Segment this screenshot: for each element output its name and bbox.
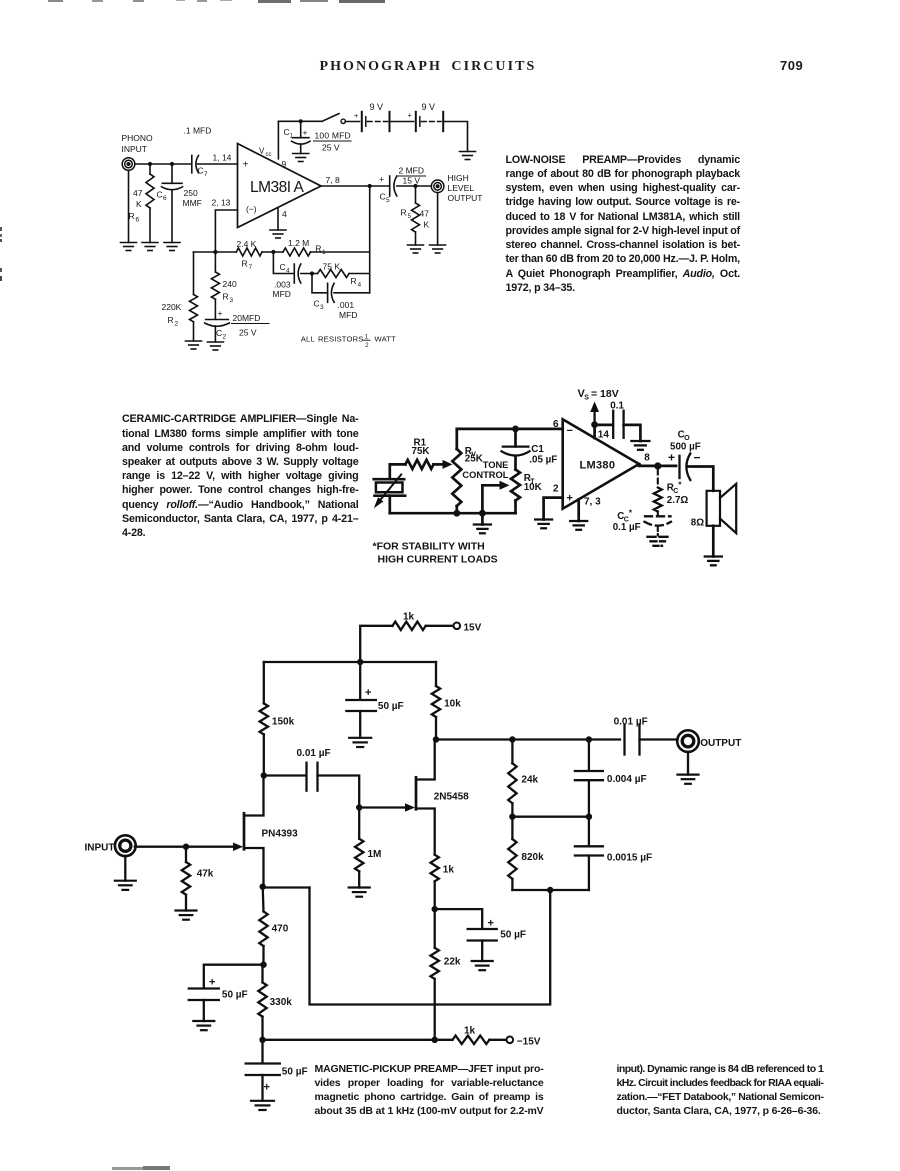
svg-text:0.01 µF: 0.01 µF bbox=[614, 717, 648, 728]
switch bbox=[322, 114, 339, 122]
JFET Q1 PN4393 bbox=[243, 813, 246, 849]
resistor R4 75K bbox=[318, 270, 350, 278]
svg-text:15V: 15V bbox=[464, 623, 482, 634]
resistor 1k (15V feed) bbox=[393, 622, 426, 630]
svg-text:WATT: WATT bbox=[375, 335, 397, 344]
svg-text:50 µF: 50 µF bbox=[222, 990, 248, 1001]
node output bbox=[654, 462, 661, 469]
svg-text:15 V: 15 V bbox=[403, 176, 421, 186]
svg-text:50 µF: 50 µF bbox=[378, 701, 404, 712]
svg-text:K: K bbox=[136, 199, 142, 209]
svg-text:2N5458: 2N5458 bbox=[434, 792, 469, 803]
svg-text:PN4393: PN4393 bbox=[262, 829, 299, 840]
svg-text:.003: .003 bbox=[274, 280, 291, 290]
node bottom rail left bbox=[259, 1037, 265, 1043]
capacitor 0.0015uF bbox=[588, 817, 590, 846]
svg-text:+: + bbox=[365, 687, 371, 699]
node wiper/ground bbox=[479, 510, 486, 517]
page number 709 bbox=[780, 58, 803, 73]
svg-text:R: R bbox=[351, 276, 357, 286]
svg-text:cc: cc bbox=[266, 152, 272, 158]
svg-text:R: R bbox=[129, 211, 135, 221]
svg-text:3: 3 bbox=[230, 297, 234, 304]
svg-text:V: V bbox=[259, 147, 265, 156]
speaker 8 ohm bbox=[707, 491, 720, 526]
RT wiper arrow wire bbox=[482, 485, 501, 513]
15V supply: wire bbox=[360, 626, 392, 662]
svg-text:47: 47 bbox=[420, 209, 430, 219]
svg-text:6: 6 bbox=[136, 217, 140, 224]
node R3 branch bbox=[213, 250, 217, 254]
svg-text:INPUT: INPUT bbox=[85, 843, 115, 854]
svg-text:1.2 M: 1.2 M bbox=[288, 238, 309, 248]
svg-text:1, 14: 1, 14 bbox=[213, 153, 232, 163]
scan artifact marks (left edge) bbox=[0, 227, 2, 231]
resistor R2 220K bbox=[193, 252, 195, 295]
svg-text:+: + bbox=[408, 111, 413, 120]
svg-text:2 MFD: 2 MFD bbox=[399, 166, 425, 176]
input wire with gate arrow bbox=[135, 846, 234, 848]
resistor 330k bbox=[258, 982, 266, 1016]
battery B1 9V bbox=[345, 121, 359, 123]
svg-text:2: 2 bbox=[175, 321, 179, 328]
ground (R2) bbox=[186, 340, 202, 342]
potentiometer RV 25K volume bbox=[455, 429, 458, 449]
svg-text:+: + bbox=[668, 451, 675, 465]
svg-text:820k: 820k bbox=[521, 852, 544, 863]
resistor R5 47K bbox=[415, 186, 417, 203]
svg-text:9 V: 9 V bbox=[422, 102, 436, 112]
node input/R6 bbox=[148, 162, 152, 166]
svg-text:4: 4 bbox=[286, 268, 290, 275]
gate wire 2N5458 bbox=[359, 806, 406, 808]
svg-text:*: * bbox=[678, 480, 682, 490]
wire source to feedback bbox=[263, 886, 310, 888]
svg-text:5: 5 bbox=[408, 213, 412, 220]
ground (speaker) bbox=[712, 526, 715, 557]
svg-text:−: − bbox=[567, 425, 573, 437]
svg-text:75K: 75K bbox=[412, 446, 430, 457]
svg-text:C: C bbox=[280, 262, 286, 272]
svg-text:4: 4 bbox=[282, 209, 287, 219]
node C3 branch bbox=[310, 271, 314, 275]
node RV bottom bbox=[453, 510, 460, 517]
ground (battery) bbox=[460, 151, 476, 153]
svg-text:INPUT: INPUT bbox=[122, 144, 148, 154]
node source 2N5458 bbox=[432, 906, 438, 912]
capacitor 50uF (supply) bbox=[359, 662, 361, 700]
svg-text:2: 2 bbox=[223, 334, 227, 341]
wire C7 to op-amp + input, pins 1,14 bbox=[198, 163, 238, 165]
text block p2 bbox=[122, 412, 359, 540]
wire (-) input pins 2,13 bbox=[215, 210, 237, 252]
svg-text:75 K: 75 K bbox=[323, 262, 341, 272]
wire R1 to feedback line bbox=[311, 251, 370, 253]
op-amp U1 LM381A triangle bbox=[238, 144, 322, 228]
svg-text:−: − bbox=[694, 451, 701, 465]
wire cartridge bottom bbox=[388, 496, 391, 514]
wire C4 to R4 bbox=[301, 273, 318, 275]
svg-text:C: C bbox=[216, 328, 222, 338]
text block p3b bbox=[617, 1062, 824, 1118]
svg-text:MMF: MMF bbox=[183, 198, 202, 208]
node R5 bbox=[413, 184, 417, 188]
svg-text:HIGH: HIGH bbox=[448, 173, 469, 183]
ground (CC*, dashed) bbox=[648, 536, 669, 538]
resistor 1k (2N5458 source) bbox=[431, 855, 439, 882]
capacitor C6 250 MMF bbox=[171, 164, 173, 183]
capacitor 0.1 bypass bbox=[595, 424, 613, 427]
svg-text:.1 MFD: .1 MFD bbox=[184, 126, 212, 136]
capacitor 0.01uF (interstage) bbox=[264, 774, 306, 776]
capacitor C5 2MFD 15V bbox=[389, 176, 391, 196]
svg-text:250: 250 bbox=[184, 188, 198, 198]
feedback loop wire bbox=[310, 888, 551, 1005]
svg-text:PHONO: PHONO bbox=[122, 133, 154, 143]
svg-text:MFD: MFD bbox=[339, 310, 357, 320]
svg-text:RESISTORS: RESISTORS bbox=[318, 335, 364, 344]
node 47k bbox=[183, 844, 189, 850]
page header: PHONOGRAPH CIRCUITS bbox=[320, 59, 537, 75]
svg-text:OUTPUT: OUTPUT bbox=[700, 738, 741, 749]
svg-text:6: 6 bbox=[163, 195, 167, 202]
resistor 47k bbox=[185, 847, 187, 862]
resistor R1 1.2M bbox=[283, 248, 311, 256]
text block p3a bbox=[315, 1062, 544, 1118]
svg-text:0.01 µF: 0.01 µF bbox=[297, 748, 331, 759]
node top rail / 50uF bbox=[357, 659, 363, 665]
wire R4 to feedback line bbox=[349, 273, 370, 275]
svg-text:= 18V: = 18V bbox=[591, 388, 619, 400]
svg-text:14: 14 bbox=[598, 430, 610, 441]
svg-text:330k: 330k bbox=[270, 997, 293, 1008]
wire to 15V terminal bbox=[426, 625, 454, 627]
pin 4 wire and ground bbox=[277, 208, 279, 230]
svg-text:(−): (−) bbox=[246, 204, 257, 214]
svg-text:24k: 24k bbox=[521, 775, 538, 786]
capacitor C1 100MFD 25V bbox=[299, 119, 303, 123]
node bottom rail 22k bbox=[432, 1037, 438, 1043]
ground (output jack) bbox=[437, 193, 439, 245]
ground (input jack) bbox=[124, 856, 126, 881]
ground (47k) bbox=[176, 909, 197, 911]
svg-text:+: + bbox=[488, 918, 494, 930]
svg-text:9 V: 9 V bbox=[370, 102, 384, 112]
svg-text:2.7Ω: 2.7Ω bbox=[667, 495, 689, 506]
svg-text:+: + bbox=[303, 128, 308, 138]
svg-text:K: K bbox=[424, 220, 430, 230]
resistor 10k bbox=[435, 662, 437, 686]
svg-text:0.1: 0.1 bbox=[610, 401, 624, 412]
node feedback bbox=[547, 887, 553, 893]
svg-text:7: 7 bbox=[249, 264, 253, 271]
node 2N5458 drain bbox=[433, 736, 439, 742]
svg-text:*: * bbox=[629, 508, 633, 518]
ground (50uF supply) bbox=[349, 737, 371, 739]
svg-text:C: C bbox=[198, 166, 204, 176]
top rail wire bbox=[264, 661, 436, 663]
bottom rail wire bbox=[390, 512, 516, 515]
svg-text:R: R bbox=[168, 315, 174, 325]
node source PN4393 bbox=[260, 884, 266, 890]
svg-text:100 MFD: 100 MFD bbox=[315, 131, 351, 141]
wire C5 to output jack bbox=[397, 185, 432, 187]
node 470/330k/50uF bbox=[260, 962, 266, 968]
svg-text:22k: 22k bbox=[444, 957, 461, 968]
svg-text:S: S bbox=[584, 395, 589, 402]
svg-text:220K: 220K bbox=[162, 302, 182, 312]
ground (0.1 cap) bbox=[631, 440, 649, 442]
node input/C6 bbox=[170, 162, 174, 166]
node C1 top bbox=[512, 426, 519, 433]
svg-text:C1: C1 bbox=[531, 444, 544, 455]
svg-text:470: 470 bbox=[272, 924, 289, 935]
capacitor CC* 0.1uF (dashed) bbox=[657, 512, 659, 515]
resistor 1k (-15V feed) bbox=[453, 1036, 490, 1044]
node 820k top bbox=[509, 814, 515, 820]
node drain PN4393 bbox=[261, 772, 267, 778]
resistor 1M bbox=[358, 808, 360, 839]
svg-text:20MFD: 20MFD bbox=[233, 313, 261, 323]
wire input to C7 bbox=[135, 163, 192, 165]
svg-text:47k: 47k bbox=[197, 869, 214, 880]
svg-text:*FOR STABILITY WITH: *FOR STABILITY WITH bbox=[373, 541, 485, 553]
capacitor 0.01uF output bbox=[623, 725, 625, 755]
resistor R3 240 bbox=[214, 252, 216, 272]
input jack bbox=[115, 835, 136, 856]
op-amp U2 LM380 triangle bbox=[563, 419, 639, 508]
resistor 24k bbox=[511, 740, 513, 764]
ground (tone network) bbox=[481, 513, 484, 524]
capacitor 50uF (330k bypass) bbox=[261, 1040, 263, 1063]
scan artifact marks (bottom edge) bbox=[112, 1167, 143, 1170]
mid rail wire bbox=[512, 816, 589, 818]
svg-text:2: 2 bbox=[365, 343, 369, 349]
svg-text:C: C bbox=[380, 192, 386, 202]
svg-text:7: 7 bbox=[204, 171, 208, 178]
svg-text:1: 1 bbox=[290, 134, 294, 140]
svg-text:LM38I A: LM38I A bbox=[250, 179, 305, 196]
resistor 150k bbox=[263, 662, 265, 703]
node 0.004 top bbox=[586, 736, 592, 742]
ceramic cartridge symbol bbox=[374, 478, 405, 481]
svg-text:1M: 1M bbox=[368, 849, 382, 860]
vertical feedback wire from output bbox=[369, 186, 371, 293]
resistor R6 47K bbox=[149, 164, 151, 174]
svg-text:8: 8 bbox=[644, 453, 650, 464]
svg-text:+: + bbox=[379, 175, 384, 185]
svg-text:+: + bbox=[264, 1082, 270, 1094]
resistor 820k bbox=[511, 817, 513, 839]
ground (output jack) bbox=[687, 752, 689, 775]
svg-text:47: 47 bbox=[133, 188, 143, 198]
svg-text:7, 8: 7, 8 bbox=[326, 175, 340, 185]
node 0.0015 top bbox=[586, 814, 592, 820]
capacitor CO 500uF bbox=[678, 456, 680, 478]
svg-text:1: 1 bbox=[365, 335, 369, 341]
svg-text:OUTPUT: OUTPUT bbox=[448, 193, 483, 203]
svg-text:7, 3: 7, 3 bbox=[584, 497, 601, 508]
-15V terminal bbox=[507, 1037, 514, 1044]
svg-text:2, 13: 2, 13 bbox=[212, 198, 231, 208]
battery B2 9V bbox=[391, 121, 414, 123]
svg-text:50 µF: 50 µF bbox=[282, 1067, 308, 1078]
node 24k top bbox=[509, 736, 515, 742]
bottom junction rail wire bbox=[512, 889, 589, 891]
resistor 22k bbox=[434, 909, 436, 948]
pin 2 wire and ground bbox=[544, 498, 563, 520]
capacitor 50uF (470 bypass) bbox=[204, 965, 264, 988]
node gate 2N5458 bbox=[356, 804, 362, 810]
pin 8 output wire bbox=[639, 464, 676, 466]
node C4 branch bbox=[271, 250, 275, 254]
ground (phono input) bbox=[128, 170, 130, 242]
wire to -15V terminal bbox=[489, 1039, 506, 1041]
15V terminal bbox=[454, 623, 461, 630]
svg-text:+: + bbox=[209, 977, 215, 989]
pin 7,3 wire and ground bbox=[577, 499, 580, 521]
svg-text:+: + bbox=[567, 493, 573, 505]
scan artifact marks (top edge) bbox=[48, 0, 63, 2]
svg-text:HIGH CURRENT LOADS: HIGH CURRENT LOADS bbox=[378, 554, 498, 566]
wire cartridge top bbox=[390, 464, 406, 479]
svg-text:−15V: −15V bbox=[517, 1036, 541, 1047]
JFET Q2 2N5458 bbox=[415, 777, 418, 809]
svg-text:.001: .001 bbox=[338, 300, 355, 310]
svg-text:C: C bbox=[314, 299, 320, 309]
wire battery to ground bbox=[444, 122, 467, 152]
svg-text:0.004 µF: 0.004 µF bbox=[607, 774, 647, 785]
wire R1 to RV wiper arrow bbox=[434, 463, 445, 466]
svg-text:C: C bbox=[157, 190, 163, 200]
wire op-amp output pins 7,8 bbox=[321, 185, 389, 187]
svg-text:10k: 10k bbox=[444, 699, 461, 710]
svg-text:5: 5 bbox=[386, 197, 390, 204]
svg-text:50 µF: 50 µF bbox=[500, 930, 526, 941]
svg-text:ALL: ALL bbox=[301, 335, 315, 344]
svg-text:TONE: TONE bbox=[483, 460, 509, 470]
svg-text:LM380: LM380 bbox=[580, 460, 616, 472]
svg-text:LEVEL: LEVEL bbox=[448, 183, 475, 193]
svg-text:R: R bbox=[401, 208, 407, 218]
svg-text:10K: 10K bbox=[524, 482, 542, 493]
svg-text:+: + bbox=[243, 160, 249, 171]
svg-text:CONTROL: CONTROL bbox=[462, 470, 508, 480]
capacitor 50uF (2N5458 source) bbox=[435, 909, 483, 928]
resistor R1 75K bbox=[405, 460, 433, 469]
resistor 470 bbox=[262, 887, 265, 912]
svg-text:0.0015 µF: 0.0015 µF bbox=[607, 853, 652, 864]
svg-text:8Ω: 8Ω bbox=[691, 518, 704, 529]
bottom rail wire bbox=[263, 1039, 453, 1041]
resistor R7 2.4K bbox=[236, 248, 262, 256]
capacitor C7 .1 MFD bbox=[191, 156, 193, 173]
svg-text:9: 9 bbox=[282, 159, 287, 169]
capacitor C1 .05uF bbox=[514, 429, 517, 446]
wire R7 to R1 bbox=[262, 251, 283, 253]
svg-text:240: 240 bbox=[223, 279, 237, 289]
capacitor C3 .001 MFD bbox=[312, 274, 327, 293]
phono input jack bbox=[122, 158, 135, 171]
pin 9 wire bbox=[277, 121, 279, 159]
svg-text:.05 µF: .05 µF bbox=[529, 455, 557, 466]
svg-text:25 V: 25 V bbox=[239, 328, 257, 338]
output jack bbox=[677, 730, 699, 752]
capacitor C2 20MFD 25V bbox=[206, 319, 229, 321]
svg-text:R: R bbox=[242, 259, 248, 269]
wire CO to speaker bbox=[688, 467, 714, 491]
svg-text:2.4 K: 2.4 K bbox=[237, 239, 257, 249]
resistor RC* 2.7ohm (dashed leads) bbox=[657, 470, 659, 488]
node output/feedback bbox=[368, 184, 372, 188]
high level output jack bbox=[431, 180, 444, 193]
ground (1M) bbox=[349, 886, 370, 888]
svg-text:R: R bbox=[223, 292, 229, 302]
svg-text:3: 3 bbox=[320, 304, 324, 311]
top rail wire bbox=[457, 428, 563, 431]
pin 14 wire, Vs arrow bbox=[593, 425, 596, 438]
svg-text:25K: 25K bbox=[465, 453, 483, 464]
svg-text:150k: 150k bbox=[272, 717, 295, 728]
svg-text:4: 4 bbox=[358, 282, 362, 289]
svg-text:MFD: MFD bbox=[273, 289, 291, 299]
svg-text:6: 6 bbox=[553, 419, 559, 430]
capacitor 0.004uF bbox=[588, 740, 590, 771]
svg-text:500 µF: 500 µF bbox=[670, 442, 701, 453]
capacitor C4 .003 MFD branch wire bbox=[273, 252, 294, 274]
drain rail wire bbox=[436, 738, 620, 740]
potentiometer RT 10K tone bbox=[511, 470, 520, 501]
text block p1 bbox=[506, 153, 741, 296]
svg-text:+: + bbox=[218, 308, 223, 318]
svg-text:2: 2 bbox=[553, 484, 559, 495]
svg-text:1k: 1k bbox=[464, 1026, 476, 1037]
feedback rail wire bbox=[194, 251, 237, 253]
svg-text:25 V: 25 V bbox=[322, 143, 340, 153]
supply rail wire bbox=[278, 120, 322, 122]
svg-text:1k: 1k bbox=[443, 865, 455, 876]
svg-text:1k: 1k bbox=[403, 612, 415, 623]
svg-text:0.1 µF: 0.1 µF bbox=[613, 522, 641, 533]
svg-text:+: + bbox=[354, 111, 359, 120]
